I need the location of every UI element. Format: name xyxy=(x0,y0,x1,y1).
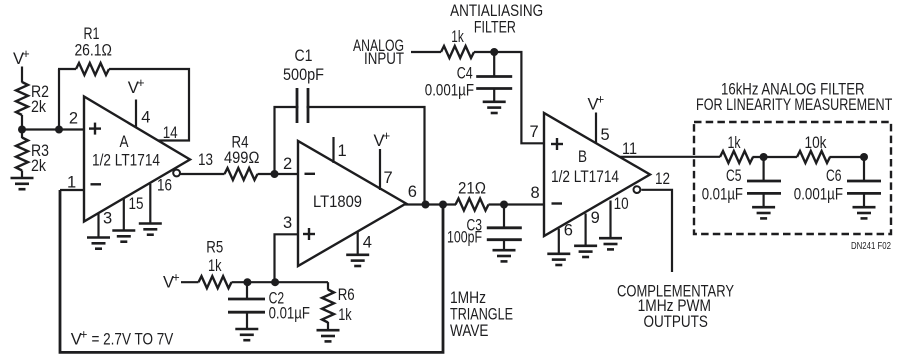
wire C2 lower stub xyxy=(246,312,248,329)
wire divider node to opamp A +IN xyxy=(22,128,84,130)
svg-text:1/2 LT1714: 1/2 LT1714 xyxy=(551,168,619,186)
node junction output / C1 return xyxy=(422,201,430,209)
svg-text:+: + xyxy=(80,328,87,342)
op-amp U1A triangle (1/2 LT1714) xyxy=(84,97,190,222)
wire C5 upper stub xyxy=(762,157,764,181)
svg-text:A: A xyxy=(120,133,129,151)
wire pin 1 inverting input xyxy=(60,189,84,191)
op-amp U1B triangle (1/2 LT1714) xyxy=(544,113,650,236)
op-amp A inverting - mark xyxy=(91,183,102,185)
capacitor C1 plates xyxy=(297,88,308,123)
ground C5 xyxy=(752,207,775,218)
svg-text:13: 13 xyxy=(198,151,213,169)
svg-text:1MHz: 1MHz xyxy=(450,289,486,307)
LT1809 inverting - mark xyxy=(305,173,316,175)
wire pin 4 stub xyxy=(357,232,359,255)
wire pin 13 to R4 xyxy=(180,173,225,175)
node junction C4 tap xyxy=(490,48,498,56)
svg-text:2: 2 xyxy=(283,155,292,173)
resistor R5 xyxy=(199,276,232,288)
ground pin 3 xyxy=(87,238,110,249)
svg-text:INPUT: INPUT xyxy=(364,50,404,68)
capacitor C3 plates xyxy=(487,228,522,240)
svg-text:+: + xyxy=(137,76,144,90)
svg-text:0.01µF: 0.01µF xyxy=(269,305,310,323)
svg-text:7: 7 xyxy=(530,123,539,141)
svg-text:FOR LINEARITY MEASUREMENT: FOR LINEARITY MEASUREMENT xyxy=(696,96,892,114)
svg-text:0.001µF: 0.001µF xyxy=(425,81,474,99)
svg-text:7: 7 xyxy=(384,169,393,187)
op-amp B inverting - mark xyxy=(552,202,563,204)
wire to R1 xyxy=(58,68,76,70)
svg-text:+: + xyxy=(172,271,179,285)
ground pin 6 xyxy=(547,254,570,265)
node junction C2 tap xyxy=(243,278,251,286)
op-amp A noninverting + mark xyxy=(89,123,101,135)
wire R1 left riser xyxy=(58,69,60,130)
wire R1 to pin 14 xyxy=(109,69,189,141)
svg-text:10k: 10k xyxy=(805,134,828,152)
wire C1 left leg xyxy=(275,107,299,173)
wire pin 12 output xyxy=(641,190,672,272)
svg-text:499Ω: 499Ω xyxy=(224,149,259,167)
svg-text:1: 1 xyxy=(67,174,76,192)
svg-text:6: 6 xyxy=(408,183,417,201)
op-amp B noninverting + mark xyxy=(551,138,563,150)
svg-text:12: 12 xyxy=(655,170,670,188)
svg-text:1k: 1k xyxy=(208,257,222,275)
resistor R6 xyxy=(322,290,334,323)
wire R5 to R6 xyxy=(232,281,329,283)
wire pin 5 V+ stub xyxy=(595,113,597,144)
node junction output / triangle-wave feedback xyxy=(439,201,447,209)
svg-text:C5: C5 xyxy=(726,167,742,185)
wire pin 7 V+ stub xyxy=(379,149,381,190)
ground pin 16 xyxy=(139,224,162,235)
svg-text:6: 6 xyxy=(564,222,573,240)
node junction pin 3 tap xyxy=(271,278,279,286)
svg-text:1k: 1k xyxy=(451,28,464,46)
svg-text:8: 8 xyxy=(531,184,540,202)
svg-text:26.1Ω: 26.1Ω xyxy=(74,42,112,60)
svg-text:2k: 2k xyxy=(31,157,47,175)
svg-text:1k: 1k xyxy=(728,134,742,152)
ground C2 xyxy=(235,329,258,340)
capacitor C4 plates xyxy=(476,77,512,89)
resistor 21&#937; xyxy=(456,199,489,211)
wire LT1809 output xyxy=(405,203,456,205)
svg-text:2k: 2k xyxy=(31,98,47,116)
svg-text:C1: C1 xyxy=(295,47,313,65)
svg-text:9: 9 xyxy=(591,209,600,227)
ground R6 xyxy=(317,330,340,341)
ground C3 xyxy=(493,250,516,261)
wire C3 lower stub xyxy=(503,240,505,251)
svg-text:= 2.7V TO 7V: = 2.7V TO 7V xyxy=(92,331,174,349)
node junction C3 tap xyxy=(500,201,508,209)
svg-text:FILTER: FILTER xyxy=(474,19,516,37)
resistor R4 xyxy=(225,168,258,180)
svg-text:500pF: 500pF xyxy=(283,66,324,84)
svg-text:+: + xyxy=(383,129,390,143)
svg-text:+: + xyxy=(22,47,29,61)
ground under R3 xyxy=(11,178,34,189)
node junction C5 tap xyxy=(760,153,768,161)
wire C6 upper stub xyxy=(863,157,865,181)
wire pin 3 input from R5/C2 node xyxy=(275,234,299,282)
capacitor C5 plates xyxy=(747,181,781,193)
svg-text:R1: R1 xyxy=(84,25,100,43)
wire pin 10 stub xyxy=(609,201,611,239)
resistor R1 xyxy=(76,63,109,75)
resistor 1k antialiasing xyxy=(441,46,474,58)
capacitor C6 plates xyxy=(847,181,881,193)
ground C6 xyxy=(853,207,876,218)
resistor 1k (filter) xyxy=(720,151,753,163)
svg-text:14: 14 xyxy=(163,124,178,142)
wire pin 3 stub xyxy=(97,214,99,238)
node junction R1 feedback tap xyxy=(55,126,63,134)
svg-text:3: 3 xyxy=(103,210,112,228)
svg-text:10: 10 xyxy=(614,195,629,213)
wire 10k to C6 node xyxy=(830,156,865,158)
wire R6 top corner xyxy=(327,282,329,290)
svg-text:21Ω: 21Ω xyxy=(458,180,486,198)
svg-text:5: 5 xyxy=(601,126,610,144)
wire C5 lower stub xyxy=(762,193,764,207)
svg-text:C4: C4 xyxy=(457,65,473,83)
wire analog input lead xyxy=(411,51,441,53)
svg-text:0.001µF: 0.001µF xyxy=(794,186,843,204)
svg-text:TRIANGLE: TRIANGLE xyxy=(450,306,513,324)
svg-text:4: 4 xyxy=(141,109,150,127)
svg-text:ANTIALIASING: ANTIALIASING xyxy=(450,2,543,20)
svg-text:1: 1 xyxy=(338,142,347,160)
wire V+ stub pin 4 xyxy=(135,100,137,128)
resistor R2 xyxy=(16,82,28,115)
svg-text:16: 16 xyxy=(157,177,172,195)
wire C6 lower stub xyxy=(863,193,865,207)
ground pin 9 xyxy=(574,246,597,257)
resistor R3 xyxy=(16,138,28,171)
wire pin 15 stub xyxy=(123,199,125,231)
node junction R2/R3/opamp A +IN xyxy=(18,126,26,134)
svg-text:+: + xyxy=(597,93,604,107)
inversion bubble op-amp A output pin 13 xyxy=(173,170,180,177)
op-amp U2 triangle (LT1809) xyxy=(298,141,406,266)
svg-text:4: 4 xyxy=(363,233,372,251)
svg-text:0.01µF: 0.01µF xyxy=(702,186,743,204)
wire R4 to LT1809 -IN xyxy=(258,173,299,175)
wire pin 11 output xyxy=(620,156,720,158)
node junction R4 / C1 / LT1809 -IN xyxy=(271,170,279,178)
wire 1k to 10k xyxy=(753,156,798,158)
svg-text:1/2 LT1714: 1/2 LT1714 xyxy=(92,152,160,170)
ground pin 10 xyxy=(599,238,622,249)
ground pin 15 xyxy=(112,231,135,242)
wire R3 to ground xyxy=(21,171,23,179)
svg-text:B: B xyxy=(578,148,587,166)
svg-text:LT1809: LT1809 xyxy=(313,193,362,211)
node junction C6 tap xyxy=(860,153,868,161)
ground pin 4 LT1809 xyxy=(346,255,369,266)
wire C1 right leg to output node xyxy=(307,107,425,205)
wire pin 1 stub LT1809 xyxy=(332,137,334,163)
wire C4 upper stub xyxy=(493,52,495,77)
wire pin 6 stub xyxy=(558,229,560,254)
wire triangle-wave feedback loop xyxy=(60,190,443,352)
svg-text:15: 15 xyxy=(129,195,144,213)
wire C3 upper stub xyxy=(503,205,505,228)
LT1809 noninverting + mark xyxy=(303,228,315,240)
wire 21&#937; to op-amp B -IN xyxy=(489,203,545,205)
ground C4 xyxy=(483,102,506,113)
svg-text:2: 2 xyxy=(69,109,78,127)
svg-text:DN241 F02: DN241 F02 xyxy=(851,240,891,252)
svg-text:C6: C6 xyxy=(826,167,842,185)
svg-text:WAVE: WAVE xyxy=(450,322,489,340)
inversion bubble pin 12 output xyxy=(634,186,641,193)
svg-text:R6: R6 xyxy=(338,286,355,304)
wire antialiasing node to op-amp B +IN xyxy=(474,52,544,143)
resistor 10k (filter) xyxy=(797,151,830,163)
wire R2 to R3 with node xyxy=(21,115,23,138)
wire C2 upper stub xyxy=(246,282,248,299)
svg-text:OUTPUTS: OUTPUTS xyxy=(643,313,708,331)
svg-text:3: 3 xyxy=(283,214,292,232)
svg-text:100pF: 100pF xyxy=(447,229,482,247)
wire V+ stub to R2 xyxy=(21,67,23,83)
wire pin 16 stub xyxy=(149,184,151,224)
capacitor C2 plates xyxy=(228,299,265,312)
wire pin 9 stub xyxy=(584,214,586,246)
wire R6 to ground xyxy=(327,322,329,330)
svg-text:1k: 1k xyxy=(338,306,352,324)
dashed box 16kHz filter xyxy=(694,122,891,234)
wire V+ to R5 xyxy=(181,281,199,283)
wire C4 lower stub xyxy=(493,89,495,102)
svg-text:11: 11 xyxy=(622,140,637,158)
svg-text:R5: R5 xyxy=(206,239,223,257)
